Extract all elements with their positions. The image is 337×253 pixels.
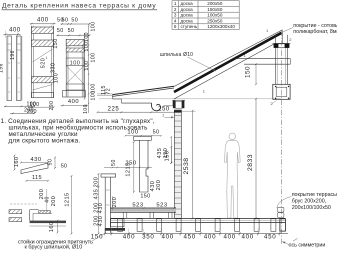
svg-text:400: 400 (123, 233, 135, 240)
svg-text:160: 160 (14, 156, 20, 167)
svg-text:450: 450 (183, 233, 195, 240)
svg-text:150х50: 150х50 (207, 7, 223, 12)
svg-text:150: 150 (163, 148, 169, 159)
svg-text:400: 400 (204, 233, 216, 240)
svg-text:покрытие террасы -: покрытие террасы - (292, 192, 337, 198)
svg-text:160: 160 (49, 221, 55, 232)
svg-text:200: 200 (27, 109, 37, 115)
svg-text:покрытие - сотовый: покрытие - сотовый (293, 22, 337, 29)
svg-text:435: 435 (94, 189, 100, 200)
svg-text:100: 100 (90, 21, 96, 31)
svg-text:430: 430 (98, 216, 104, 227)
svg-text:290: 290 (49, 101, 55, 111)
svg-text:200х50: 200х50 (207, 1, 223, 6)
svg-text:523: 523 (156, 202, 167, 208)
svg-text:2833: 2833 (247, 154, 254, 171)
svg-text:196: 196 (10, 50, 16, 60)
svg-text:50: 50 (153, 129, 160, 135)
svg-text:115: 115 (32, 175, 42, 181)
svg-text:150: 150 (244, 66, 251, 78)
svg-text:50: 50 (68, 28, 75, 34)
svg-text:200: 200 (112, 197, 118, 208)
svg-text:150: 150 (140, 194, 150, 200)
svg-text:200: 200 (156, 180, 162, 191)
svg-text:400: 400 (161, 233, 173, 240)
svg-text:330: 330 (51, 63, 57, 73)
svg-text:430: 430 (30, 157, 41, 163)
svg-text:1200х300х40: 1200х300х40 (207, 24, 235, 29)
svg-text:450: 450 (264, 233, 276, 240)
svg-text:100: 100 (91, 83, 97, 93)
svg-text:100: 100 (83, 104, 89, 114)
svg-text:для скрытого монтажа.: для скрытого монтажа. (9, 137, 81, 144)
svg-text:100: 100 (127, 129, 138, 135)
svg-text:50: 50 (57, 28, 64, 34)
svg-text:50: 50 (48, 159, 54, 166)
svg-text:50: 50 (71, 17, 78, 23)
svg-text:50: 50 (62, 17, 69, 23)
svg-text:1215: 1215 (126, 162, 132, 176)
svg-text:250х50: 250х50 (207, 18, 223, 23)
svg-text:200: 200 (51, 196, 57, 207)
svg-text:доска: доска (181, 1, 194, 6)
svg-text:1: 1 (174, 1, 177, 6)
svg-text:400: 400 (37, 17, 49, 23)
svg-text:5: 5 (174, 24, 177, 29)
svg-text:72: 72 (106, 88, 112, 95)
svg-text:400: 400 (9, 28, 21, 34)
svg-text:200: 200 (94, 177, 100, 188)
svg-text:523: 523 (132, 202, 143, 208)
svg-text:доска: доска (181, 18, 194, 23)
svg-text:200х100/100х50: 200х100/100х50 (292, 205, 331, 211)
svg-text:100: 100 (70, 60, 81, 66)
svg-text:150: 150 (53, 38, 59, 48)
svg-text:к брусу шпилькой, Ø10: к брусу шпилькой, Ø10 (25, 243, 83, 250)
svg-text:брус 200х200,: брус 200х200, (292, 198, 326, 204)
svg-text:2538: 2538 (183, 158, 190, 175)
svg-text:4: 4 (174, 18, 177, 23)
svg-text:1215: 1215 (65, 192, 71, 206)
svg-text:100: 100 (53, 73, 59, 83)
svg-text:шпилька Ø10: шпилька Ø10 (160, 52, 193, 58)
svg-text:100х50: 100х50 (207, 13, 223, 18)
svg-text:ось симметрии: ось симметрии (289, 242, 326, 248)
svg-text:430: 430 (98, 203, 104, 214)
svg-text:доска: доска (181, 7, 194, 12)
svg-text:400: 400 (68, 99, 79, 105)
svg-text:100: 100 (90, 52, 96, 62)
svg-text:40: 40 (45, 196, 51, 203)
svg-text:400: 400 (223, 233, 235, 240)
svg-text:225: 225 (108, 107, 120, 113)
svg-text:доска: доска (181, 13, 194, 18)
svg-text:Деталь крепления навеса террас: Деталь крепления навеса террасы к дому (2, 2, 156, 9)
svg-text:2: 2 (174, 7, 177, 12)
svg-text:400: 400 (241, 233, 253, 240)
svg-text:1: 1 (46, 56, 48, 60)
svg-text:ступень: ступень (181, 24, 198, 29)
svg-text:100: 100 (84, 32, 90, 42)
svg-text:350: 350 (142, 233, 154, 240)
svg-text:поликарбонат, 8мм: поликарбонат, 8мм (293, 29, 337, 35)
svg-text:50: 50 (111, 159, 117, 166)
svg-text:100: 100 (84, 60, 90, 70)
svg-text:50: 50 (61, 164, 67, 170)
svg-text:3: 3 (174, 13, 177, 18)
svg-text:196: 196 (0, 63, 4, 73)
